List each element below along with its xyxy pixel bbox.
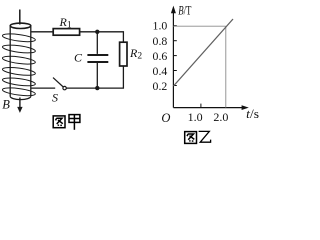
B field arrow below coil — [17, 98, 22, 113]
svg-text:0.8: 0.8 — [153, 34, 168, 48]
inductor coil L (solenoid cylinder) — [10, 10, 31, 100]
reference line y=1.0 — [173, 25, 225, 27]
coil winding turns — [2, 32, 36, 97]
wire coil bottom to switch — [31, 87, 55, 89]
junction node bottom — [95, 86, 99, 90]
svg-text:0.2: 0.2 — [153, 79, 168, 93]
B(t) line — [174, 19, 234, 86]
svg-text:2.0: 2.0 — [213, 110, 228, 124]
svg-text:1.0: 1.0 — [153, 18, 168, 32]
caption 图乙 — [185, 132, 197, 144]
capacitor C plates — [87, 54, 108, 56]
y axis tick marks — [173, 26, 201, 108]
junction node top — [95, 30, 99, 34]
svg-text:B: B — [2, 98, 10, 112]
capacitor C branch bottom wire — [96, 63, 98, 88]
resistor R2 — [120, 42, 127, 66]
caption 图甲 — [53, 116, 65, 128]
svg-text:1.0: 1.0 — [188, 110, 203, 124]
svg-text:S: S — [52, 91, 58, 105]
y axis value labels — [153, 18, 168, 93]
svg-text:0.6: 0.6 — [153, 49, 168, 63]
y-axis arrowhead — [171, 6, 176, 14]
x axis value labels — [188, 110, 229, 124]
svg-text:B/T: B/T — [178, 4, 191, 18]
x-axis arrowhead — [242, 105, 249, 110]
wire R2 bottom to bottom rail — [66, 66, 123, 88]
reference line x=2.0 — [225, 26, 227, 107]
switch S — [53, 78, 66, 90]
graph axes — [173, 9, 245, 108]
capacitor C branch top wire — [96, 32, 98, 54]
svg-text:O: O — [161, 111, 170, 125]
wire R1 to top-right corner — [80, 32, 124, 42]
resistor R1 — [53, 29, 79, 36]
wire coil top to R1 — [31, 31, 53, 33]
svg-text:t/s: t/s — [246, 107, 259, 121]
svg-text:C: C — [74, 51, 83, 65]
svg-text:0.4: 0.4 — [153, 64, 168, 78]
